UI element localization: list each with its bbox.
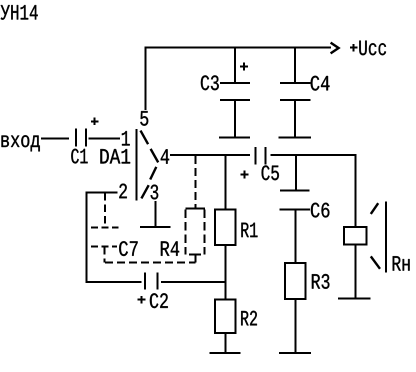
wire dashed feedback rail [105,262,195,264]
wire +Ucc rail [145,47,331,49]
wire pin2 [87,192,118,194]
ground C3 [219,137,250,139]
capacitor C4 [280,47,330,138]
capacitor C3 [201,47,250,138]
pin 2 [119,184,127,199]
wire input [41,137,69,139]
resistor R4 dashed [161,156,205,263]
capacitor C6 [280,155,330,218]
capacitor C5 [241,147,279,180]
resistor R2 [215,300,257,353]
load Rн [344,201,410,298]
pin 5 [140,111,148,126]
pin 3 [151,185,159,200]
wire C5 to load [270,155,355,227]
wire C1 to pin1 [88,137,120,139]
capacitor C1 [71,117,98,163]
capacitor C2 [138,272,168,308]
ground pin3 [140,226,170,228]
node +Ucc label [350,41,386,56]
wire to C2 left [86,281,142,283]
wire pin3 tail [154,201,156,227]
capacitor C7 dashed [91,193,138,263]
ground Rн [338,298,370,300]
op-amp DA1 [100,129,158,201]
wire R1-R2 [225,245,227,300]
resistor R3 [285,263,329,353]
pin 4 [161,149,169,163]
ground C4 [279,137,312,139]
title УН14 [1,5,38,20]
wire C2 to divider [161,281,226,283]
wire pin5 riser [145,47,147,111]
wire feedback down [86,192,88,283]
node вход label [2,135,40,151]
ground R2 [210,352,241,354]
wire pin4 output [170,154,250,156]
ground R3 [279,352,311,354]
node +Ucc arrow [331,43,339,54]
pin 1 [122,131,130,145]
resistor R1 [215,155,258,245]
wire C6 to R3 [295,210,297,264]
